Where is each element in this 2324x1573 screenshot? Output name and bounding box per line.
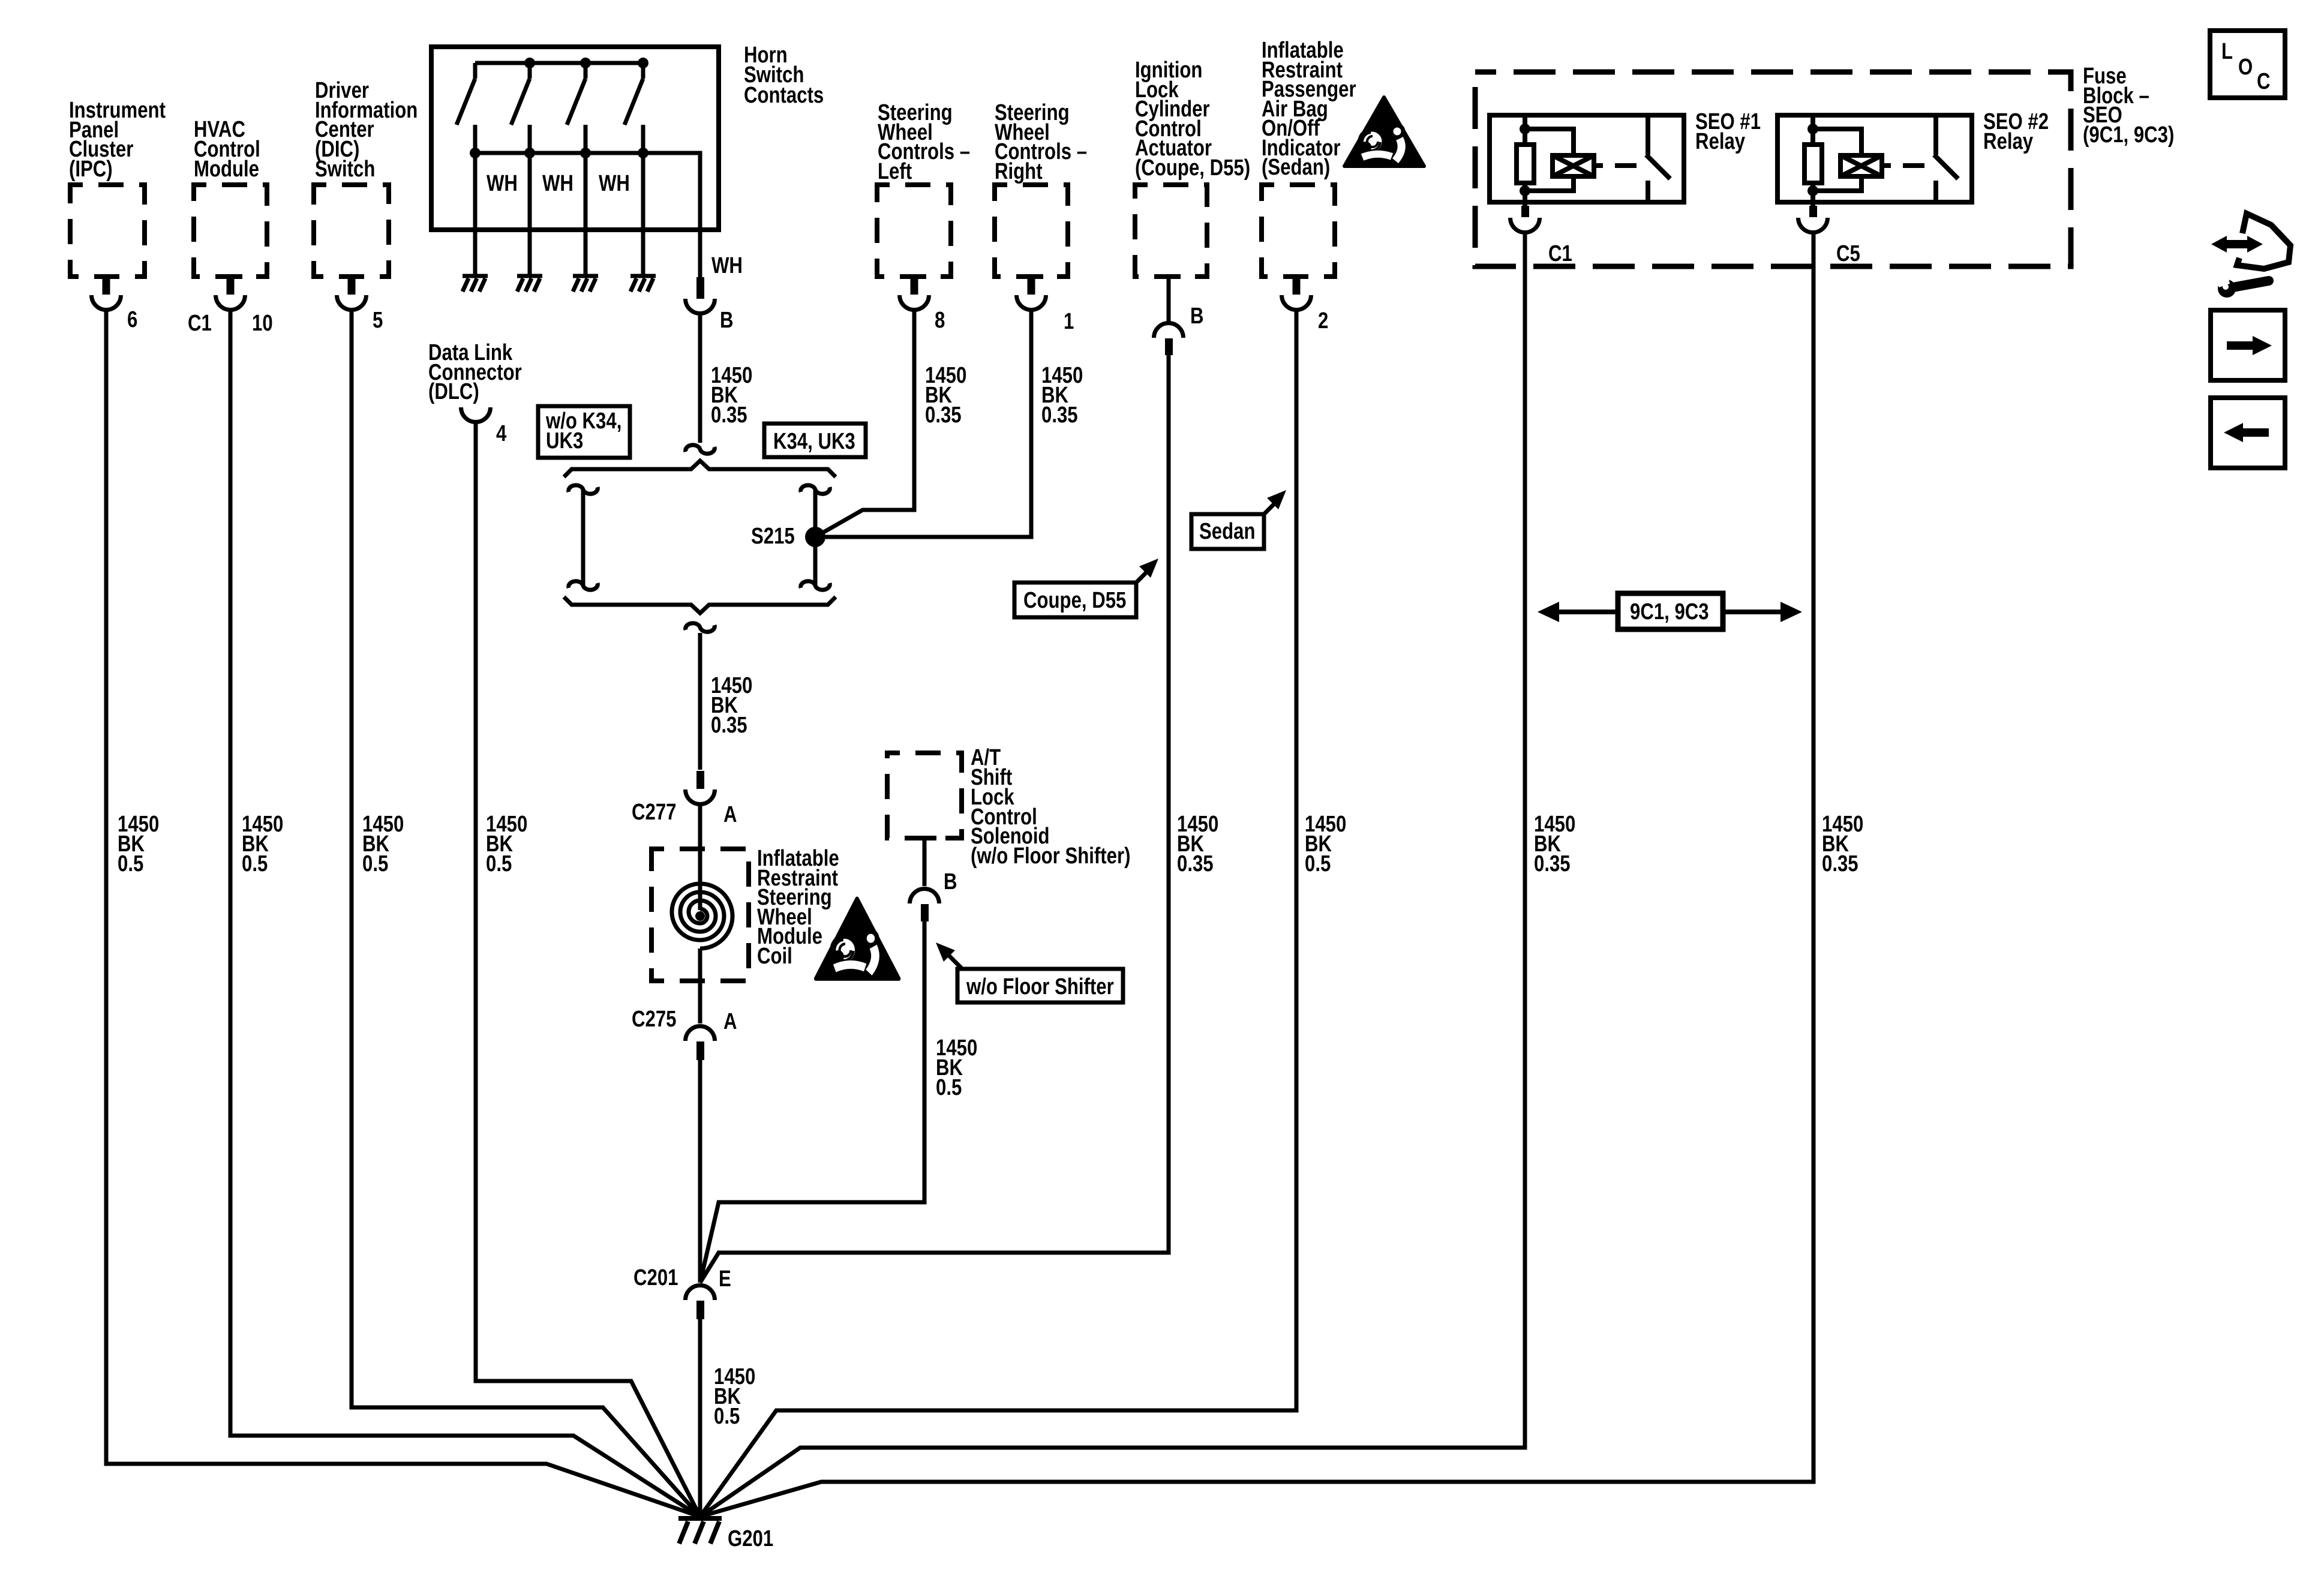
harness repair icon wrench <box>2215 271 2269 298</box>
Fuse Block SEO label <box>2083 64 2174 148</box>
svg-text:UK3: UK3 <box>546 428 583 454</box>
horn ground wire 2 <box>528 153 532 275</box>
svg-text:WH: WH <box>599 171 630 196</box>
DIC label <box>315 78 418 182</box>
horn switch 2 <box>511 63 530 153</box>
svg-text:10: 10 <box>252 311 273 336</box>
horn ground wire 1 <box>473 153 478 275</box>
SEO #1 Relay box <box>1490 115 1684 202</box>
svg-text:B: B <box>720 308 734 333</box>
relay1 junction dots <box>1520 124 1530 196</box>
K34, UK3 callout box <box>764 424 866 457</box>
horn switch 1 <box>457 63 475 153</box>
connector C1 pin 10 <box>188 311 273 336</box>
wire A/T solenoid B 1450 BK 0.5 to C201 <box>700 921 924 1283</box>
svg-text:B: B <box>944 869 957 894</box>
HVAC label <box>194 117 260 182</box>
wire HVAC 1450 BK 0.5 to G201 <box>230 311 700 1517</box>
ground <box>573 276 598 292</box>
wire solenoid box to connector B <box>912 838 936 886</box>
harness repair icon double arrow <box>2211 236 2263 253</box>
svg-text:WH: WH <box>711 253 743 278</box>
relay1 coil branch wires <box>1525 129 1574 191</box>
wire C201 to G201 <box>698 1319 702 1518</box>
svg-text:(w/o Floor Shifter): (w/o Floor Shifter) <box>971 843 1130 869</box>
svg-text:C1: C1 <box>1548 241 1572 266</box>
relay2 coil <box>1840 155 1882 176</box>
svg-text:0.35: 0.35 <box>1041 403 1078 428</box>
relay1 switch <box>1646 115 1670 202</box>
A/T Shift Lock Control Solenoid dashed box <box>887 753 962 838</box>
Inflatable Restraint Steering Wheel Module Coil dashed box <box>651 849 749 981</box>
ground G201 <box>678 1518 722 1544</box>
C201 wire label 1450 BK 0.5 <box>714 1364 755 1429</box>
svg-text:Right: Right <box>995 159 1043 184</box>
svg-text:O: O <box>2238 55 2253 80</box>
svg-text:C201: C201 <box>633 1265 678 1290</box>
svg-text:(DLC): (DLC) <box>428 379 479 404</box>
svg-text:0.35: 0.35 <box>1177 851 1214 876</box>
WH wire labels inside horn box <box>487 171 630 196</box>
svg-text:E: E <box>719 1266 731 1292</box>
relay2 actuating dashed link <box>1882 163 1924 168</box>
relay1 output pin to C1 <box>1511 202 1540 233</box>
Data Link Connector (DLC) connector pin 4 <box>461 407 491 422</box>
Ignition Lock Cylinder Control Actuator component box <box>1135 185 1207 277</box>
svg-text:C: C <box>2257 69 2271 94</box>
svg-text:Sedan: Sedan <box>1199 519 1255 544</box>
svg-text:G201: G201 <box>728 1526 773 1551</box>
svg-text:A: A <box>723 802 737 827</box>
HVAC Control Module component box <box>194 185 267 277</box>
Instrument Panel Cluster (IPC) component box <box>70 185 145 277</box>
Inflatable Restraint Passenger Air Bag On/Off Indicator component box <box>1262 185 1335 277</box>
wire DIC 1450 BK 0.5 to G201 <box>352 311 700 1517</box>
svg-text:Switch: Switch <box>315 157 375 182</box>
svg-text:C275: C275 <box>632 1007 676 1032</box>
svg-text:9C1, 9C3: 9C1, 9C3 <box>1630 599 1709 625</box>
inline connector solenoid B <box>910 889 939 922</box>
svg-text:0.35: 0.35 <box>711 403 747 428</box>
col wire labels 1450 BK 0.5 <box>118 812 159 876</box>
svg-text:WH: WH <box>487 171 518 196</box>
svg-text:2: 2 <box>1318 308 1328 334</box>
svg-text:8: 8 <box>935 308 945 333</box>
SEO #2 Relay box <box>1777 115 1972 202</box>
forward arrow box <box>2211 310 2285 380</box>
svg-text:(Sedan): (Sedan) <box>1262 155 1330 180</box>
coil label <box>757 846 839 969</box>
wire break below bottom brace <box>686 623 715 632</box>
Horn Switch Contacts box <box>431 47 719 230</box>
HVAC connector C1 pin 10 <box>216 277 245 310</box>
wire C275 to C201 1450 BK 0.5 <box>698 1060 702 1283</box>
relay2 coil branch wires <box>1813 129 1861 191</box>
relay2 coil feed wire <box>1810 115 1815 202</box>
relay1 resistor <box>1517 145 1534 183</box>
splice option brace top <box>564 461 836 477</box>
svg-text:0.35: 0.35 <box>1822 851 1858 876</box>
w/o Floor Shifter arrow <box>936 942 962 969</box>
option bracket right / S215 stem <box>801 485 830 590</box>
svg-text:L: L <box>2221 39 2233 64</box>
svg-text:0.5: 0.5 <box>1305 851 1331 876</box>
S215 wire label 1450 BK 0.35 <box>711 673 752 738</box>
harness repair icon connector outline <box>2237 214 2290 269</box>
IPC connector pin 6 <box>92 277 121 310</box>
wire steering right pin 1 to S215 <box>815 311 1031 537</box>
Fuse Block SEO dashed box <box>1475 72 2071 266</box>
splice option brace bottom <box>564 597 836 613</box>
inline connector C275 pin A <box>686 1026 715 1061</box>
SEO #1 Relay label <box>1695 109 1761 154</box>
SEO #2 Relay label <box>1983 109 2049 154</box>
Coupe arrow <box>1136 559 1158 583</box>
wire horn B 1450 BK 0.35 down to splice brace <box>698 314 702 443</box>
indicator wire label 1450 BK 0.5 <box>1305 812 1346 876</box>
SW-L label <box>878 100 970 184</box>
horn ground wire 3 <box>584 153 588 275</box>
horn switch 3 <box>567 63 585 153</box>
C277 A <box>632 800 737 827</box>
C201 E <box>633 1265 731 1292</box>
ground <box>517 276 542 292</box>
wire DLC 1450 BK 0.5 to G201 <box>476 423 700 1517</box>
wire fuse C5 1450 BK 0.35 to G201 <box>700 233 1813 1517</box>
svg-text:0.5: 0.5 <box>242 851 268 876</box>
LOC legend box <box>2210 31 2285 98</box>
wire break <box>686 445 715 454</box>
inline connector C201 pin E <box>686 1286 715 1320</box>
wire coil to C275 <box>698 948 702 1023</box>
solenoid label <box>971 745 1130 869</box>
Indicator label <box>1262 38 1356 180</box>
Steering Wheel Controls Right component box <box>995 185 1068 277</box>
option bracket left <box>569 485 598 590</box>
C1 wire label 1450 BK 0.35 <box>1534 812 1575 876</box>
svg-text:C5: C5 <box>1836 241 1860 266</box>
Sedan callout box <box>1191 514 1264 549</box>
wire steering left pin 8 to S215 <box>815 311 914 537</box>
svg-text:6: 6 <box>127 307 137 332</box>
svg-text:S215: S215 <box>751 524 795 549</box>
svg-text:Module: Module <box>194 157 259 182</box>
horn wire label 1450 BK 0.35 <box>711 363 752 428</box>
airbag warning triangle (coil) <box>816 899 899 978</box>
DLC label <box>428 340 522 404</box>
relay1 actuating dashed link <box>1594 163 1637 168</box>
9C1, 9C3 callout box <box>1618 593 1723 629</box>
wire indicator pin 2 1450 BK 0.5 to G201 <box>700 311 1296 1517</box>
w/o K34 UK3 callout text <box>545 409 621 454</box>
svg-text:Coupe, D55: Coupe, D55 <box>1023 588 1126 613</box>
wire IPC 1450 BK 0.5 to G201 <box>106 311 700 1517</box>
svg-text:0.35: 0.35 <box>925 403 962 428</box>
ground <box>630 276 656 292</box>
relay2 junction dots <box>1807 124 1818 196</box>
horn top bus junction dots <box>524 58 648 68</box>
svg-text:0.35: 0.35 <box>1534 851 1571 876</box>
relay1 coil feed wire <box>1523 115 1527 202</box>
horn top bus <box>475 61 643 65</box>
horn lower bus junction dots <box>470 148 648 158</box>
SW-R connector pin 1 <box>1017 277 1046 310</box>
SW-L connector pin 8 <box>900 277 929 310</box>
indicator connector pin 2 <box>1282 277 1311 310</box>
SW-R wire label <box>1041 363 1083 428</box>
svg-text:Left: Left <box>878 159 912 184</box>
svg-text:0.5: 0.5 <box>486 851 512 876</box>
DIC connector pin 5 <box>337 277 367 310</box>
ignition wire label 1450 BK 0.35 <box>1177 812 1218 876</box>
relay1 coil <box>1553 155 1594 176</box>
Horn label <box>744 43 824 108</box>
horn switch 4 <box>624 63 643 153</box>
svg-text:4: 4 <box>496 421 507 446</box>
SW-L wire label <box>925 363 966 428</box>
svg-text:0.5: 0.5 <box>118 851 143 876</box>
9C1 9C3 double arrow <box>1538 602 1802 622</box>
w/o Floor Shifter callout box <box>957 969 1123 1002</box>
relay2 switch <box>1934 115 1958 202</box>
svg-text:0.5: 0.5 <box>362 851 388 876</box>
IPC label <box>69 98 166 182</box>
Steering Wheel Controls Left component box <box>877 185 951 277</box>
Ignition label <box>1135 58 1250 181</box>
svg-text:C1: C1 <box>188 311 212 336</box>
ignition connector pin B stub <box>1157 277 1181 322</box>
backward arrow box <box>2211 398 2285 468</box>
svg-text:B: B <box>1190 304 1204 329</box>
svg-text:Contacts: Contacts <box>744 83 824 108</box>
solenoid wire label 1450 BK 0.5 <box>936 1035 977 1100</box>
wire S215 to C277 1450 BK 0.35 <box>698 633 702 770</box>
wire ignition B 1450 BK 0.35 to C201 <box>700 355 1169 1283</box>
Coupe, D55 callout box <box>1014 583 1136 617</box>
relay2 output pin to C5 <box>1798 202 1828 233</box>
svg-text:1: 1 <box>1064 309 1074 334</box>
horn lower bus <box>475 153 700 277</box>
horn output inline connector B <box>686 277 715 314</box>
svg-text:(Coupe, D55): (Coupe, D55) <box>1135 155 1250 181</box>
airbag warning triangle (indicator) <box>1344 97 1424 166</box>
wire C277 to coil <box>698 805 702 910</box>
Sedan arrow <box>1264 490 1286 514</box>
svg-text:C277: C277 <box>632 800 676 825</box>
svg-text:A: A <box>723 1009 737 1034</box>
ground <box>463 276 488 292</box>
svg-text:Coil: Coil <box>757 944 792 969</box>
splice S215 <box>805 527 825 547</box>
ignition inline connector B <box>1154 323 1184 356</box>
C275 A <box>632 1007 737 1034</box>
svg-text:0.5: 0.5 <box>714 1404 740 1429</box>
horn ground wire 4 <box>641 153 645 275</box>
svg-text:WH: WH <box>542 171 574 196</box>
Driver Information Center (DIC) Switch component box <box>314 185 389 277</box>
svg-text:0.5: 0.5 <box>936 1075 962 1100</box>
wire fuse C1 1450 BK 0.35 to G201 <box>700 233 1525 1517</box>
svg-text:5: 5 <box>373 308 383 333</box>
clockspring coil spiral <box>695 911 705 921</box>
svg-text:(9C1, 9C3): (9C1, 9C3) <box>2083 122 2174 148</box>
SW-R label <box>995 100 1087 184</box>
svg-text:K34, UK3: K34, UK3 <box>773 429 855 454</box>
svg-text:0.35: 0.35 <box>711 713 747 738</box>
relay2 resistor <box>1804 145 1822 183</box>
inline connector C277 pin A <box>686 771 715 804</box>
svg-text:w/o Floor Shifter: w/o Floor Shifter <box>966 974 1114 999</box>
w/o K34, UK3 callout box <box>538 406 630 458</box>
svg-text:Relay: Relay <box>1983 129 2034 154</box>
svg-text:(IPC): (IPC) <box>69 157 113 182</box>
C5 wire label 1450 BK 0.35 <box>1822 812 1863 876</box>
svg-text:Relay: Relay <box>1695 129 1746 154</box>
